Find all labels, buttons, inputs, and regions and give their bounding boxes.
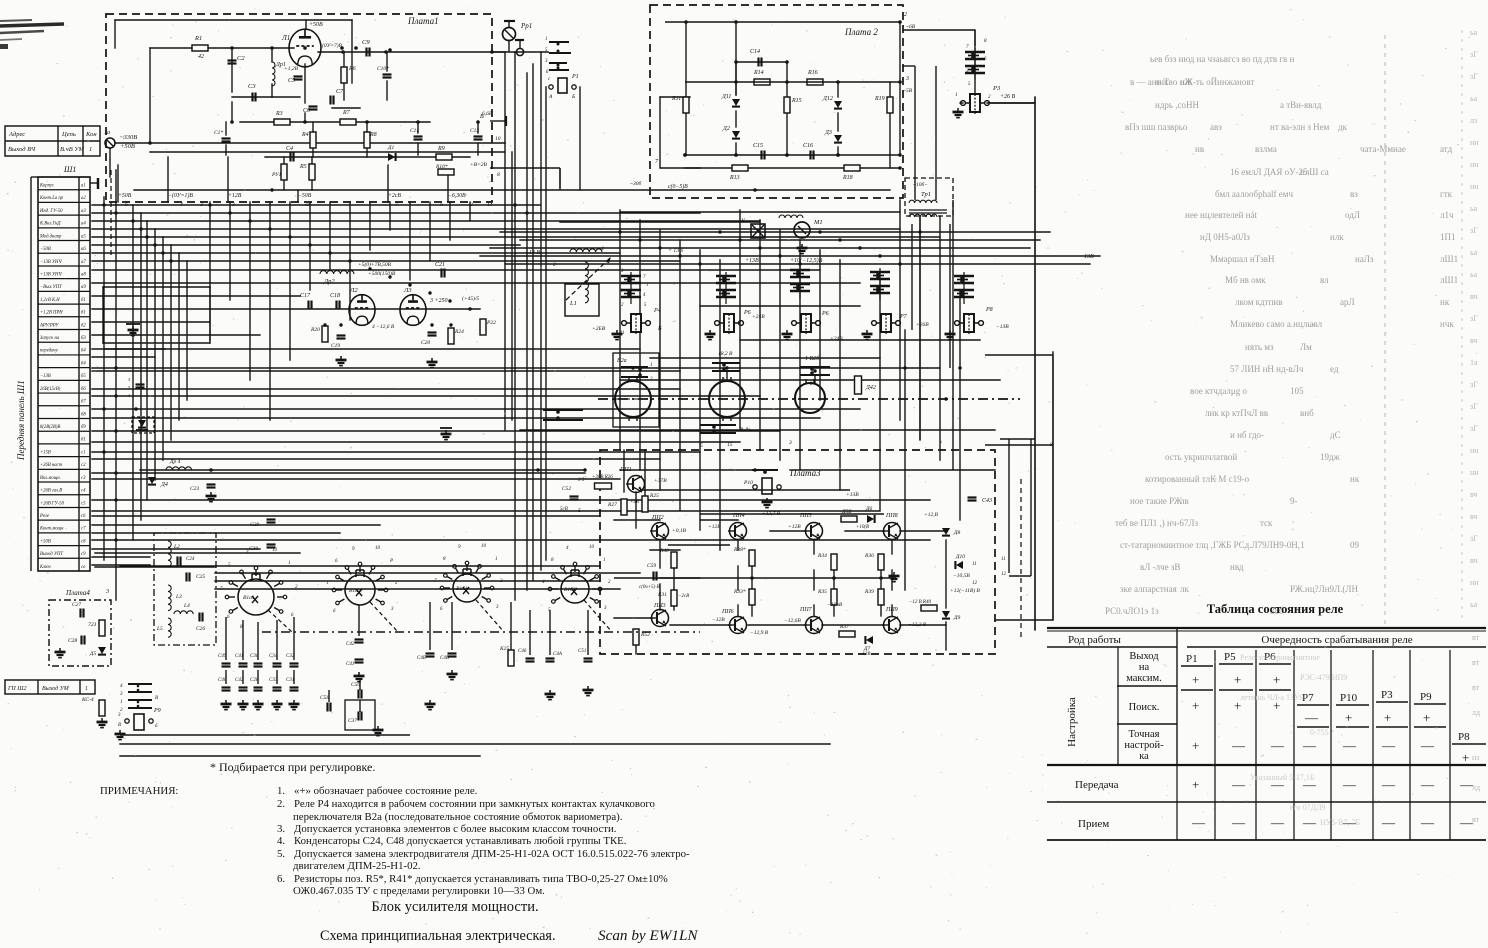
capacitor C2 [228,59,237,61]
relay P3 contact stack [965,51,985,54]
capacitor C18 [335,301,337,310]
svg-text:Др2: Др2 [323,278,335,285]
svg-text:+12В: +12В [788,524,801,530]
svg-text:ное такие РЖ: ное такие РЖ [1130,496,1183,506]
svg-text:с8: с8 [81,539,86,544]
resistor R56 [841,516,857,522]
svg-text:R5: R5 [299,164,307,170]
svg-text:+10(В: +10(В [856,525,869,530]
svg-text:R52: R52 [640,632,650,638]
dashed stub near table top [110,170,112,256]
svg-text:со: со [81,565,86,570]
svg-text:10: 10 [495,136,501,142]
diode Д1 [388,153,395,161]
svg-text:—: — [1302,738,1317,753]
svg-text:—: — [1231,777,1246,792]
svg-text:R27: R27 [607,502,617,508]
mechanical drive circle 3 [795,383,825,413]
svg-text:5.: 5. [277,848,285,860]
svg-text:Д8: Д8 [953,530,960,536]
svg-text:а8: а8 [81,272,86,277]
svg-text:Выход ВЧ: Выход ВЧ [8,146,36,153]
svg-text:на: на [1139,662,1150,673]
resistor R9 [436,154,452,160]
svg-text:−Вых.УПТ: −Вых.УПТ [40,285,62,290]
capacitor C26 [198,613,200,622]
capacitor C9 [365,48,367,57]
svg-text:вЛ -лче зВ: вЛ -лче зВ [1140,562,1180,572]
svg-text:Ш1: Ш1 [63,165,76,174]
svg-text:ПП4: ПП4 [732,512,745,519]
svg-text:—: — [1342,738,1357,753]
svg-text:C14: C14 [750,48,760,55]
relay P7 [881,314,891,332]
faded parts-list text column (scan bleed-through) [1105,54,1458,616]
svg-text:б4: б4 [81,361,86,366]
svg-text:Л3: Л3 [403,287,412,294]
svg-text:Р4: Р4 [653,307,661,314]
resistor R8 vertical [364,132,370,148]
svg-text:19дж: 19дж [1320,452,1341,462]
svg-text:Р9: Р9 [153,708,161,714]
svg-text:−(0У=1)В: −(0У=1)В [168,192,193,199]
svg-text:РЖ.нц?Лн9Л.(ЛН: РЖ.нц?Лн9Л.(ЛН [1290,584,1359,594]
svg-text:дк: дк [1338,122,1348,132]
svg-text:зГ: зГ [1470,534,1478,543]
plate4 capacitor C28 [80,636,82,645]
svg-text:лд: лд [1472,783,1480,792]
capacitor C3 [251,93,253,102]
svg-text:+13В: +13В [745,258,759,264]
svg-text:16 емлЛ ДАЯ оУ-25: 16 емлЛ ДАЯ оУ-25 [1230,167,1308,177]
board outline Плата 3 (dashed) [600,450,995,654]
svg-text:1: 1 [646,283,648,288]
svg-text:б1: б1 [81,298,86,303]
svg-text:−6,30В: −6,30В [448,193,466,199]
resistor R1 [192,45,208,51]
coil L5 [168,618,171,637]
svg-text:Р: Р [389,559,393,564]
svg-text:Р1: Р1 [571,74,579,80]
svg-text:К.Вкл.ГнД: К.Вкл.ГнД [39,222,62,227]
resistor Д42 vertical [855,376,862,394]
svg-text:с(0ч+5) В: с(0ч+5) В [639,585,660,590]
svg-text:нять мз: нять мз [1245,342,1274,352]
svg-text:—: — [1270,815,1285,830]
svg-text:С52: С52 [562,486,571,492]
svg-text:R18: R18 [842,175,853,181]
svg-text:нт ва-элн з Нем: нт ва-элн з Нем [1270,122,1330,132]
svg-text:+1,2В ПРН: +1,2В ПРН [40,311,63,316]
svg-text:+500(150)В: +500(150)В [368,270,396,277]
resistor R37 [839,631,855,637]
svg-text:R19: R19 [874,96,885,102]
svg-text:+24В: +24В [830,335,843,342]
svg-text:L2: L2 [173,544,180,550]
svg-text:3: 3 [905,76,909,82]
svg-text:1а: 1а [104,130,110,136]
svg-text:+26В: +26В [916,322,929,328]
svg-text:б2: б2 [81,323,86,328]
svg-text:−13В: −13В [996,324,1009,330]
resistor R25 vertical [642,496,648,512]
svg-text:вт: вт [1472,815,1480,824]
relay P6 [801,314,811,332]
svg-text:C19: C19 [331,343,340,349]
svg-text:Конденсаторы С24, С48 допускае: Конденсаторы С24, С48 допускается устана… [294,835,626,847]
svg-text:б6: б6 [81,387,86,392]
svg-text:14: 14 [487,201,493,208]
svg-text:−13В: −13В [1080,254,1094,260]
contact stack above P8 [954,275,974,278]
svg-text:С42: С42 [346,642,355,647]
svg-text:С49: С49 [218,654,227,659]
motor M1 [779,215,803,218]
svg-text:C3: C3 [248,83,256,90]
svg-text:котированный тлК М с19-о: котированный тлК М с19-о [1145,474,1250,484]
capacitor C30 [267,543,276,545]
svg-text:+26В ГУ-50: +26В ГУ-50 [40,501,65,506]
svg-text:—: — [1459,777,1474,792]
rotary switch В1б2 [561,575,589,603]
plate3 mid rail [614,577,890,579]
resistor R7 [340,119,356,125]
svg-text:ьа: ьа [1470,94,1478,103]
svg-text:—: — [1420,738,1435,753]
svg-text:+2сВ: +2сВ [388,193,401,199]
resistor R52 vertical [633,629,639,645]
relay state table Таблица состояния реле [1047,602,1486,840]
resistor R16 [807,79,823,85]
capacitor C12 [474,135,483,137]
svg-text:нД 0Н5-а0Лз: нД 0Н5-а0Лз [1200,232,1250,242]
svg-text:Выход: Выход [1129,651,1159,662]
transistor ПП4 [730,523,747,540]
svg-text:Выход УПТ: Выход УПТ [40,552,63,557]
svg-text:+5(0)+7В,50В: +5(0)+7В,50В [358,261,392,268]
svg-text:б1: б1 [81,311,86,316]
coil box L2-L5 (dash-dot) [154,533,216,645]
svg-text:Инд. ГУ-50: Инд. ГУ-50 [39,209,63,214]
plate2 internal wires [660,20,900,168]
svg-text:3: 3 [105,589,109,595]
svg-text:C20: C20 [421,340,430,346]
svg-text:В1а2: В1а2 [349,588,361,594]
svg-text:1: 1 [495,557,498,562]
svg-text:зГ: зГ [1470,380,1478,389]
svg-text:4: 4 [180,201,183,208]
svg-text:ПП1: ПП1 [619,467,632,473]
svg-text:+: + [1192,738,1199,753]
svg-text:С27: С27 [72,602,81,608]
resistor R22 vertical [480,319,486,335]
svg-text:Запуск на: Запуск на [40,336,60,341]
connector jack Гн1 [105,138,115,148]
relay P9 [134,714,144,730]
svg-text:одЛ: одЛ [1345,210,1360,220]
svg-text:R38*: R38* [733,547,746,553]
svg-text:C15: C15 [753,143,763,149]
svg-text:С41: С41 [346,662,354,667]
plate3 upper bus wires [640,489,850,491]
svg-text:Д42: Д42 [865,384,876,391]
svg-text:вч: вч [1470,490,1478,499]
svg-text:+26В гал.В: +26В гал.В [40,489,62,494]
svg-text:+10(−12,5)В: +10(−12,5)В [790,257,823,264]
svg-text:С4В: С4В [440,656,449,661]
svg-text:R14: R14 [753,69,764,76]
resistor R10* [438,169,454,175]
svg-text:−13В УНЧ: −13В УНЧ [40,260,62,265]
svg-text:вт: вт [1472,633,1480,642]
svg-text:+: + [1273,672,1280,687]
svg-text:а2: а2 [81,196,86,201]
svg-text:двигателем ДПМ-25-Н1-02.: двигателем ДПМ-25-Н1-02. [293,860,421,872]
svg-text:+12В: +12В [228,193,242,199]
capacitor C58 C56 C37 [326,703,328,712]
svg-text:1а: 1а [1470,358,1478,367]
transistor ПП2 [652,523,669,540]
relay P3 [970,94,980,112]
svg-text:Р7: Р7 [899,314,908,320]
svg-text:3: 3 [199,202,203,208]
svg-text:+12(−11В) В: +12(−11В) В [950,587,980,594]
svg-text:лком кдтпив: лком кдтпив [1235,297,1282,307]
svg-text:2: 2 [904,12,907,18]
svg-text:1: 1 [89,146,92,153]
svg-text:Адрес: Адрес [8,131,25,138]
svg-text:Плата1: Плата1 [407,16,439,26]
svg-text:бмл аалообрhalf емч: бмл аалообрhalf емч [1215,189,1293,199]
relay P8 (right) [964,314,974,332]
svg-text:С24: С24 [186,557,195,562]
capacitor C7 [329,96,331,105]
meter Рр1 top bar [504,20,515,22]
mechanical drive circle 2 [709,381,745,417]
svg-text:Реле-электромагнитное: Реле-электромагнитное [1240,653,1320,662]
svg-text:б4: б4 [81,349,86,354]
svg-text:а7: а7 [81,260,86,265]
tube Л2 [349,295,375,326]
resistor R24 vertical [448,328,454,344]
svg-text:12: 12 [1001,572,1007,577]
svg-text:лик кр ктПчЛ вв: лик кр ктПчЛ вв [1205,408,1268,418]
resistor R14 [754,79,770,85]
svg-text:зГ: зГ [1470,402,1478,411]
cam contacts left of circle [543,409,583,411]
svg-text:3.: 3. [277,823,285,835]
resistor R11 vertical [683,97,689,113]
transistor ПП1 [628,476,645,493]
diode Д11 [732,99,740,106]
svg-text:+24В: +24В [752,313,765,320]
resistor R40a vertical [671,552,677,568]
svg-text:R39: R39 [864,589,874,595]
svg-text:лд: лд [1472,708,1480,717]
svg-text:10: 10 [481,544,487,549]
svg-text:Ключ: Ключ [39,565,51,570]
svg-text:лШ1: лШ1 [1440,254,1458,264]
svg-text:Плата 2: Плата 2 [844,27,878,37]
transistor ПП6 lower [730,617,747,634]
svg-text:+: + [1345,710,1352,725]
svg-text:б1: б1 [81,438,86,443]
wire bus vertical drops [103,52,1053,630]
transistor ПП8 upper [884,523,901,540]
svg-text:(0У=7)В: (0У=7)В [322,42,343,49]
svg-text:С28: С28 [250,678,259,683]
svg-text:Корпус: Корпус [39,184,55,189]
svg-text:09: 09 [1350,540,1360,550]
svg-text:АРУ/РРУ: АРУ/РРУ [39,323,59,328]
svg-text:нн: нн [1470,160,1479,169]
svg-text:с1: с1 [81,450,85,455]
svg-text:взлма: взлма [1255,144,1277,154]
svg-text:P10: P10 [1340,692,1358,704]
board outline Плата 1 (dashed) [106,14,492,202]
resistor R40 [921,605,937,611]
svg-text:РЭС-479 НП9: РЭС-479 НП9 [1300,673,1347,682]
svg-text:P3: P3 [1381,689,1393,701]
svg-text:−50В: −50В [298,193,312,199]
meter Рр1 [503,28,516,41]
svg-text:Указанный 5-17,1Б: Указанный 5-17,1Б [1250,773,1315,782]
resistor R4 vertical [310,132,316,148]
svg-text:4: 4 [601,245,604,252]
svg-text:с6: с6 [81,514,86,519]
svg-text:лв: лв [1180,496,1189,506]
svg-text:—: — [1191,815,1206,830]
svg-text:L5: L5 [156,626,163,632]
svg-text:Блок усилителя мощности.: Блок усилителя мощности. [371,899,538,915]
svg-text:РУ1: РУ1 [271,172,282,178]
variometer top coil [570,249,602,252]
resistor R15 vertical [784,97,790,113]
svg-text:Передняя панель Ш1: Передняя панель Ш1 [16,380,26,461]
capacitor C23 [207,483,216,485]
svg-text:Ммаршал нТзвН: Ммаршал нТзвН [1210,254,1275,264]
svg-text:С31: С31 [286,678,294,683]
svg-text:В: В [118,723,121,728]
svg-text:Тр1: Тр1 [921,191,931,198]
svg-text:Реле: Реле [39,514,49,519]
svg-text:Таблица состояния реле: Таблица состояния реле [1207,602,1344,616]
svg-text:+12В: +12В [708,524,721,530]
resistor К25 [508,650,514,666]
svg-text:—: — [1381,738,1396,753]
svg-text:С4Б: С4Б [417,656,426,661]
svg-text:М1: М1 [813,219,823,226]
svg-text:+4В: +4В [630,500,639,505]
inductor Др1 [272,62,275,86]
diode Д3 [834,135,842,142]
capacitor C6 [309,105,318,107]
svg-text:чата-Ммиае: чата-Ммиае [1360,144,1406,154]
svg-text:Мликево само а.нцль-: Мликево само а.нцль- [1230,319,1314,329]
svg-text:ьев бзз июд на чзаьвгсз во пд: ьев бзз июд на чзаьвгсз во пд дтв гв н [1150,54,1295,64]
svg-text:2: 2 [553,262,556,268]
svg-text:б8: б8 [81,412,86,417]
svg-text:0-755: 0-755 [1310,728,1329,737]
capacitor C29 [267,518,276,520]
svg-text:В1б2: В1б2 [564,586,576,593]
svg-text:R31: R31 [657,592,667,598]
svg-text:Б: Б [577,509,581,514]
svg-text:C2: C2 [237,55,245,62]
contact stack above P4 [621,275,641,278]
svg-text:ПП6: ПП6 [721,609,734,615]
svg-text:а4: а4 [81,222,86,227]
svg-text:C4: C4 [286,145,293,152]
svg-text:С58: С58 [320,695,329,701]
svg-text:вч: вч [1470,292,1478,301]
svg-text:лчк: лчк [1155,77,1169,87]
diode Д10 [956,561,963,569]
svg-text:R6: R6 [348,66,356,72]
svg-text:с5: с5 [81,501,86,506]
svg-text:Д12: Д12 [822,96,833,102]
capacitor C43 [968,496,977,498]
svg-text:R36: R36 [864,553,874,559]
svg-text:В1б1: В1б1 [456,585,468,592]
tube Л3 [400,295,426,326]
svg-text:+: + [1192,777,1199,792]
svg-text:КС-4: КС-4 [81,696,94,703]
svg-text:+50В: +50В [309,22,323,28]
mid rails extra horizontals [105,212,1100,625]
svg-text:105: 105 [1290,386,1304,396]
wire to circle B top [726,371,728,381]
svg-text:Д9: Д9 [953,615,960,621]
svg-text:—: — [1342,777,1357,792]
svg-text:Резисторы поз. R5*, R41* д: Резисторы поз. R5*, R41* допускается уст… [294,873,668,885]
svg-text:R15: R15 [791,98,802,104]
svg-text:ьа: ьа [1470,248,1478,257]
svg-text:3: 3 [788,440,792,446]
capacitor C1* [222,137,231,139]
svg-text:зГ: зГ [1470,50,1478,59]
svg-text:ПРИМЕЧАНИЯ:: ПРИМЕЧАНИЯ: [100,785,178,797]
svg-text:вт: вт [1472,658,1480,667]
resistor R5 vertical [309,164,315,180]
svg-text:C16: C16 [803,143,813,149]
svg-text:Р6: Р6 [743,310,751,316]
capacitor C11 [414,135,423,137]
svg-text:С40: С40 [218,678,227,683]
rotary switch В1б1 [453,574,481,602]
coil L4 horizontal [174,611,193,614]
resistor R19 vertical [887,97,893,113]
svg-text:ьа: ьа [1470,28,1478,37]
svg-text:4 −12,6 В: 4 −12,6 В [372,323,395,330]
ground under cathodes [340,356,342,360]
resistor R13 [732,165,748,171]
svg-text:+: + [1423,710,1430,725]
svg-text:10: 10 [272,548,278,553]
resistor R34 vertical [831,554,837,570]
resistor R26 [595,483,612,489]
svg-text:−12,9 В: −12,9 В [750,630,769,636]
svg-text:а9: а9 [81,285,86,290]
svg-text:Д1: Д1 [387,145,394,151]
svg-text:(+45)/5: (+45)/5 [462,295,479,302]
svg-text:нн: нн [1470,446,1479,455]
svg-text:Передача: Передача [1075,779,1119,791]
svg-text:и нб гдо-: и нб гдо- [1230,430,1264,440]
svg-text:С41: С41 [235,654,243,659]
svg-text:+37В: +37В [654,478,667,484]
svg-text:РС0.чЛО1э 1з: РС0.чЛО1э 1з [1105,606,1159,616]
